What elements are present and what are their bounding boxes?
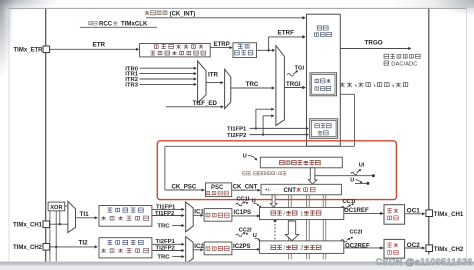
box input filter and edge detector TI1	[99, 206, 152, 227]
page bottom shadow	[0, 262, 474, 267]
svg-text:RCC: RCC	[99, 21, 113, 28]
wire TRC	[231, 87, 273, 89]
wire TI1 from pin	[50, 223, 68, 225]
pin TIMx_ETR	[43, 46, 50, 53]
svg-text:2: 2	[300, 246, 303, 252]
mux IC1 selector	[186, 202, 194, 232]
wire ITR	[206, 82, 222, 84]
label reset enable up count	[340, 82, 345, 87]
svg-text:TIMx_ETR: TIMx_ETR	[14, 48, 44, 54]
wire ETRF	[257, 49, 274, 51]
wire TRGI	[284, 87, 303, 89]
svg-text:CK_CNT: CK_CNT	[233, 184, 258, 191]
mux TRGI selector	[276, 46, 285, 126]
wire TI1F_ED	[166, 106, 222, 108]
wire update event UI	[315, 175, 374, 177]
bus preload transfer lines	[288, 195, 290, 241]
wire ETRP	[210, 47, 231, 49]
svg-text:DAC/ADC: DAC/ADC	[391, 61, 417, 67]
wire TI2FP2 to TRGI mux	[262, 133, 264, 135]
wire TRGO	[340, 48, 409, 50]
svg-text:ITR3: ITR3	[125, 83, 138, 89]
svg-text:OC2REF: OC2REF	[345, 242, 370, 249]
svg-text:ETRF: ETRF	[278, 29, 295, 36]
page frame right border	[466, 8, 468, 261]
svg-text:TI1: TI1	[80, 211, 90, 218]
svg-text:TI2: TI2	[79, 239, 89, 246]
svg-text:OC1REF: OC1REF	[344, 207, 369, 214]
svg-text:(CK_INT): (CK_INT)	[170, 11, 196, 17]
wire IC2	[193, 249, 202, 251]
mux TRC selector	[225, 69, 231, 108]
svg-text:IC1PS: IC1PS	[234, 209, 252, 216]
svg-text:CC2I: CC2I	[239, 228, 252, 234]
box XOR	[48, 202, 65, 211]
svg-text:CNT: CNT	[284, 187, 297, 194]
svg-text:TIMx_CH1: TIMx_CH1	[434, 211, 464, 218]
highlight box time base unit	[157, 141, 396, 200]
wire CK_PSC from slave mode controller	[340, 93, 354, 95]
dashed preload link	[274, 219, 277, 222]
box capture compare 1 register	[260, 207, 344, 219]
wire TI2 from pin	[50, 246, 96, 248]
box capture compare 2 register	[260, 241, 344, 254]
box encoder interface	[310, 119, 338, 139]
hollow arrow capture compare 1 to 2	[285, 221, 298, 241]
box slave mode controller	[310, 73, 337, 96]
svg-text:IC2: IC2	[194, 243, 204, 250]
svg-text:PSC: PSC	[211, 185, 224, 191]
label to other timers to DAC ADC	[384, 54, 389, 58]
svg-text:XOR: XOR	[50, 205, 62, 211]
svg-text:UI: UI	[359, 162, 365, 168]
svg-text:ETRP: ETRP	[214, 41, 230, 48]
svg-text:TRC: TRC	[246, 81, 259, 88]
wire CK_CNT	[232, 189, 259, 191]
wire IC1	[193, 214, 202, 216]
svg-text:,: ,	[251, 172, 252, 177]
box input capture 1 prescaler	[204, 209, 232, 222]
box prescaler PSC	[206, 183, 232, 197]
label stop clear or up down	[243, 172, 247, 176]
wire OC2REF	[344, 247, 384, 249]
svg-text:TIMx_CH2: TIMx_CH2	[434, 246, 464, 253]
wire OC1REF	[344, 212, 384, 214]
box polarity selection and edge detector and prescaler	[140, 44, 211, 57]
pin TIMx_CH2 input	[43, 244, 50, 251]
page top-left corner shadow	[0, 0, 16, 85]
svg-text:TRGI: TRGI	[286, 81, 301, 88]
box input capture 2 prescaler	[204, 242, 232, 255]
wire TIMxCLK underline	[80, 26, 157, 28]
svg-text:TRGO: TRGO	[365, 40, 383, 47]
pin TIMx_CH1 input	[43, 221, 50, 228]
mux ITR selector	[198, 61, 206, 103]
svg-text:CK_PSC: CK_PSC	[172, 184, 197, 191]
hollow arrow ARR to CNT	[308, 168, 316, 184]
svg-text:TRC: TRC	[157, 224, 170, 230]
page top-right corner shadow	[428, 0, 474, 16]
box input filter and edge detector TI2	[99, 238, 152, 258]
wire CK_INT	[146, 17, 303, 19]
pin TIMx_CH1 output	[426, 210, 433, 217]
svg-text:CC1I: CC1I	[343, 199, 356, 205]
page frame top border	[9, 7, 467, 9]
box input filter ETR	[233, 43, 257, 58]
box output control 2	[384, 239, 405, 258]
pin TIMx_CH2 output	[426, 245, 433, 252]
mux TI1 XOR selector	[68, 201, 76, 232]
svg-text:IC1: IC1	[194, 209, 204, 216]
svg-text:CSDN @a1109511636: CSDN @a1109511636	[376, 257, 473, 267]
wire ETR	[50, 48, 137, 50]
left pin rail	[45, 9, 47, 262]
box auto-reload register ARR	[260, 157, 342, 168]
svg-text:TIMx_CH1: TIMx_CH1	[13, 223, 43, 229]
svg-text:TI1FP1: TI1FP1	[227, 127, 247, 133]
svg-text:U: U	[243, 153, 247, 159]
label internal clock CK_INT	[145, 11, 150, 15]
hollow arrow CNT to capture compare 1	[270, 195, 277, 208]
wire XOR output	[65, 205, 68, 207]
svg-text:TI2FP2: TI2FP2	[227, 133, 247, 139]
svg-text:U: U	[350, 177, 354, 183]
mux IC2 selector	[186, 237, 194, 264]
svg-text:TI1F_ED: TI1F_ED	[193, 100, 218, 107]
svg-text:TIMxCLK: TIMxCLK	[121, 21, 148, 28]
box counter CNT	[261, 184, 341, 195]
svg-text:CC2I: CC2I	[350, 230, 363, 236]
page frame left border	[8, 8, 10, 261]
svg-text:+/-: +/-	[265, 188, 271, 194]
wire XOR inputs	[49, 211, 51, 262]
svg-text:TRC: TRC	[157, 255, 170, 261]
box output control 1	[384, 205, 405, 225]
wire update event U	[355, 182, 368, 184]
svg-text:1: 1	[300, 211, 303, 217]
right pin rail	[428, 9, 430, 255]
box trigger controller	[307, 14, 341, 146]
label TIMxCLK from RCC	[88, 22, 92, 25]
svg-text:ITR: ITR	[208, 71, 218, 78]
svg-text:TGI: TGI	[295, 65, 305, 71]
svg-text:ETR: ETR	[93, 41, 106, 48]
wire TI1FP1 to TRGI mux	[255, 127, 257, 129]
svg-text:TIMx_CH2: TIMx_CH2	[13, 245, 43, 251]
